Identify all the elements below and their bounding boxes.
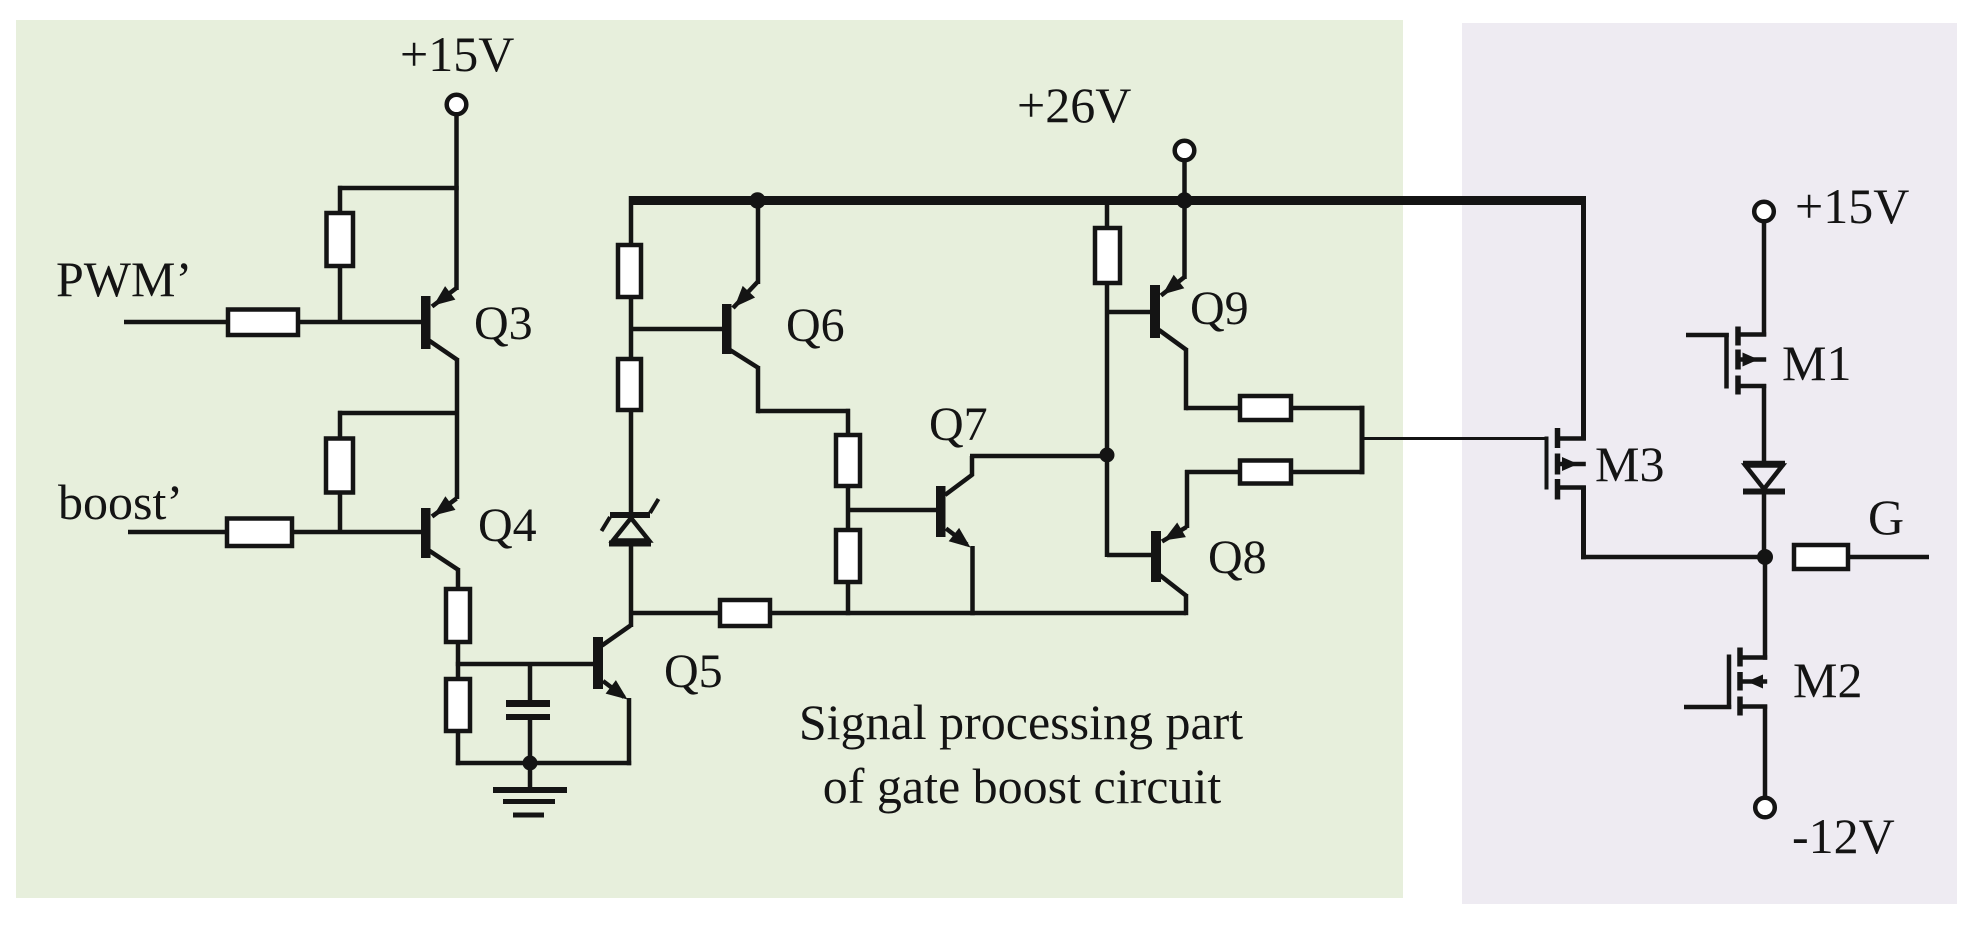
mosfet M1 channel segment bottom [1735,376,1741,395]
ground bar 2 [503,799,555,804]
mosfet M3 bulk stub [1558,462,1586,467]
wire +15V vertical to Q3 emitter [454,114,459,290]
wire PWM input [124,320,421,325]
transistor Q9 base bar [1150,285,1160,338]
wire M1 source to diode [1762,384,1767,465]
wire Q4 collector drop [456,568,461,591]
svg-text:Q6: Q6 [786,299,845,352]
capacitor C stem bottom [528,719,533,765]
svg-text:PWM’: PWM’ [56,251,192,307]
mosfet M3 gate bar [1545,437,1549,490]
svg-text:Q5: Q5 [664,645,723,698]
resistor R (Q5 base lower) [446,679,470,731]
wire +26V into right divider [1105,196,1110,230]
wire ground rail right segment [770,611,1186,616]
wire divider middle [629,295,634,361]
wire output bridge vertical [1360,406,1365,474]
wire Q6 collector to resistor [846,409,851,437]
transistor Q4 emitter diagonal [432,499,457,517]
wire lower resistor to ground rail [456,729,461,765]
wire bottom node horizontal [456,761,631,766]
wire Q6 emitter vertical [756,198,761,284]
wire Q6 collector horizontal [758,409,850,414]
wire M3 source to node G [1581,555,1765,560]
transistor Q8 emitter diagonal [1162,527,1187,542]
transistor Q9 emitter arrow (PNP) [1163,275,1185,295]
resistor R (Q4 base pull-up) [326,439,353,493]
mosfet M2 channel segment middle [1737,672,1743,691]
wire Q8 emitter riser [1185,470,1190,528]
wire M3 drain riser [1581,196,1586,441]
wire Q9 emitter vertical [1182,200,1187,279]
transistor Q5 emitter diagonal [603,681,624,697]
zener diode triangle [613,518,649,541]
transistor Q8 base bar [1151,531,1161,582]
diode D cathode bar [1743,489,1785,495]
wire Q7 divider to rail [846,580,851,615]
purple background panel (output stage) [1462,23,1957,904]
wire bus left corner drop [629,196,634,247]
mosfet M1 gate wire [1686,333,1729,338]
svg-text:Q8: Q8 [1208,531,1267,584]
transistor Q4 collector diagonal [429,551,459,571]
resistor R (output upper) [1240,396,1291,420]
transistor Q5 collector diagonal [602,626,631,646]
resistor R (Q5 base upper) [446,589,470,642]
mosfet M1 source stub [1740,384,1766,389]
zener diode anode bar [609,541,651,547]
wire M3 source drop [1581,486,1586,560]
svg-text:Q3: Q3 [474,297,533,350]
mosfet M1 gate bar [1724,333,1729,389]
wire Q5 base node vertical [456,640,461,681]
zener diode cathode hook left [602,517,611,531]
wire node G to output [1848,555,1929,560]
transistor Q4 base bar [421,508,431,558]
transistor Q5 base bar [593,637,603,689]
wire diode to node G [1762,490,1767,558]
wire Q4 pull-up left drop [338,411,343,440]
transistor Q7 emitter arrow (NPN) [949,528,971,548]
mosfet M1 channel segment top [1735,327,1741,346]
transistor Q9 emitter diagonal [1161,277,1185,296]
wire output lower left [1185,470,1240,475]
wire Q7 collector riser [970,456,975,476]
mosfet M1 bulk stub [1740,357,1766,362]
wire Q9 collector drop [1184,348,1189,410]
wire Q9 base horizontal [1107,310,1150,315]
resistor R (PWM series) [228,310,298,336]
mosfet M3 drain stub [1558,436,1586,441]
svg-text:M1: M1 [1782,335,1851,391]
node junction dot (+26V on bus) [1176,192,1192,208]
ground bar 1 [493,787,567,793]
wire Q6 base horizontal [629,327,722,332]
wire M2 source to -12V [1763,705,1768,799]
wire Q4 pull-up top [338,411,459,416]
ground bar 3 [513,813,544,818]
terminal +15V (right) [1754,202,1774,222]
wire divider to zener [629,408,634,513]
node junction dot (Q7 collector node) [1100,448,1115,463]
wire right divider vertical [1105,281,1110,557]
wire M3 gate (thin) [1364,437,1547,440]
capacitor C stem top [528,662,533,701]
transistor Q7 emitter diagonal [946,529,967,545]
mosfet M2 gate wire [1684,705,1731,710]
transistor Q8 emitter arrow (PNP) [1164,523,1186,541]
mosfet M2 drain stub [1742,655,1767,660]
green background panel (signal processing part) [16,20,1403,898]
terminal -12V [1755,798,1775,818]
wire +26V terminal drop [1182,160,1187,200]
wire Q5 base horizontal [456,662,593,667]
transistor Q7 base bar [936,486,946,537]
resistor R (Q7 divider upper) [836,435,860,486]
wire Q8 collector drop [1184,594,1189,615]
svg-text:M2: M2 [1793,652,1862,708]
svg-text:Q9: Q9 [1190,282,1249,335]
zener diode cathode bar [610,512,650,518]
svg-text:of gate boost circuit: of gate boost circuit [823,758,1222,814]
mosfet M2 bulk arrow [1747,675,1763,689]
transistor Q6 collector diagonal [730,350,759,368]
svg-text:Q4: Q4 [478,499,537,552]
wire Q3 pull-up bottom drop [338,264,343,324]
wire output upper right [1291,406,1364,411]
mosfet M2 channel segment bottom [1737,697,1743,716]
resistor R (rail series) [720,600,770,626]
zener diode cathode hook right [650,499,659,513]
node junction dot (ground node) [523,756,538,771]
mosfet M1 drain stub [1740,332,1766,337]
transistor Q6 base bar [722,304,732,354]
wire ground rail left segment [629,611,720,616]
svg-text:G: G [1868,489,1904,545]
resistor R (gate series) [1794,545,1848,569]
wire +15V to M1 drain [1762,221,1767,337]
wire Q6 collector drop [756,366,761,413]
wire Q3 pull-up top [338,186,459,191]
svg-text:+26V: +26V [1017,77,1131,133]
wire Q4 pull-up bottom drop [338,491,343,535]
resistor R (Q3 base pull-up) [327,213,354,266]
transistor Q4 emitter arrow (PNP) [434,496,456,515]
svg-text:-12V: -12V [1792,808,1895,864]
resistor R (divider upper) [618,245,641,297]
transistor Q3 base bar [421,296,431,349]
mosfet M3 channel segment top [1555,428,1561,448]
svg-text:+15V: +15V [400,26,514,82]
wire zener to Q5 collector [629,541,634,627]
capacitor C top plate [506,700,550,707]
svg-text:boost’: boost’ [58,474,183,530]
capacitor C bottom plate [506,714,550,720]
ground stem [528,763,533,790]
resistor R (divider lower) [618,359,641,410]
wire boost input [128,530,421,535]
mosfet M3 channel segment middle [1555,454,1561,475]
wire Q7 emitter drop [970,546,975,615]
wire Q3 collector to Q4 emitter [455,358,460,499]
resistor R (output lower) [1240,461,1291,484]
transistor Q3 emitter diagonal [432,288,457,307]
svg-text:Q7: Q7 [929,398,988,451]
mosfet M2 source stub [1742,704,1767,709]
node junction dot (gate node G) [1757,549,1773,565]
wire Q3 pull-up left drop [338,186,343,215]
wire +26V bus [629,196,1586,205]
wire Q9 collector horizontal [1186,406,1240,411]
mosfet M1 channel segment middle [1735,350,1741,370]
svg-text:M3: M3 [1595,436,1664,492]
transistor Q6 emitter diagonal [733,282,758,308]
node junction dot (Q6 emitter on bus) [749,192,765,208]
mosfet M3 bulk arrow [1562,457,1578,471]
resistor R (boost series) [227,519,292,547]
transistor Q3 collector diagonal [429,341,458,361]
wire Q7 collector horizontal [970,454,1107,459]
mosfet M3 channel segment bottom [1555,479,1561,500]
svg-text:Signal processing part: Signal processing part [799,694,1243,750]
transistor Q8 collector diagonal [1159,575,1187,597]
wire Q7 divider middle [846,484,851,532]
wire Q8 base horizontal [1107,553,1151,558]
transistor Q6 emitter arrow (PNP) [735,286,756,307]
transistor Q5 emitter arrow (NPN) [606,680,628,699]
wire Q5 emitter drop [627,698,632,765]
transistor Q7 collector diagonal [945,475,973,496]
mosfet M2 gate bar [1727,655,1732,710]
wire node G to M2 drain [1763,555,1768,660]
wire Q7 base horizontal [848,508,936,513]
transistor Q9 collector diagonal [1159,330,1187,350]
wire output lower right [1291,470,1364,475]
diode D triangle [1746,466,1783,490]
resistor R (Q7 divider lower) [836,530,860,582]
mosfet M2 channel segment top [1737,648,1743,667]
mosfet M2 bulk stub [1742,679,1767,684]
terminal +15V (left) [447,95,467,115]
resistor R (Q9 base) [1095,228,1120,283]
diode D anode bar [1743,461,1785,467]
transistor Q3 emitter arrow (PNP) [434,286,456,305]
mosfet M3 source stub [1558,485,1586,490]
mosfet M1 bulk arrow [1743,353,1759,367]
terminal +26V [1175,141,1195,161]
svg-text:+15V: +15V [1795,178,1909,234]
